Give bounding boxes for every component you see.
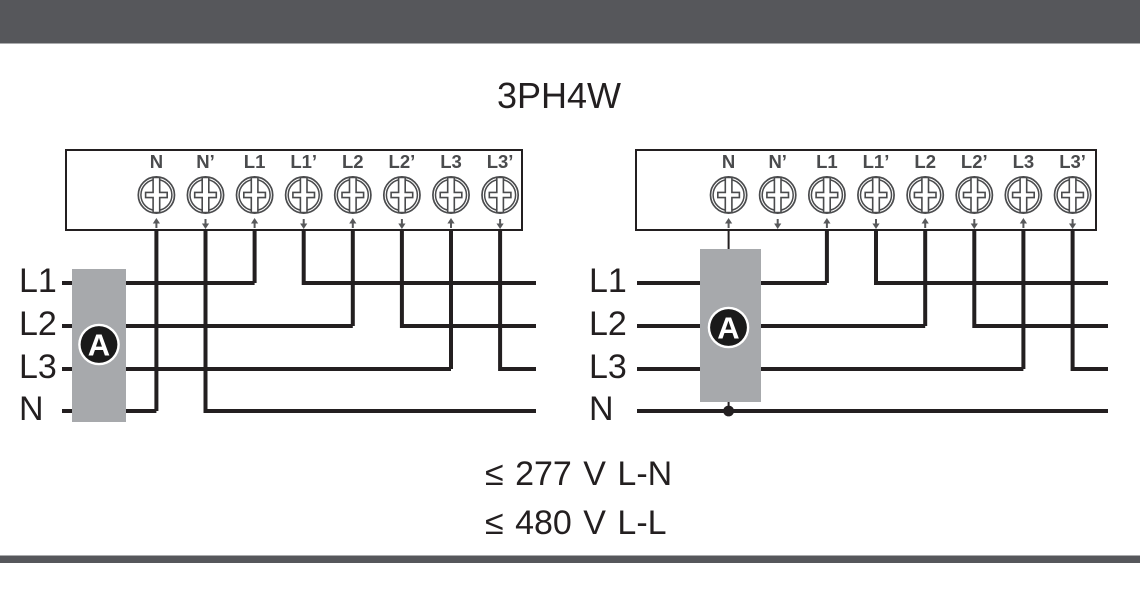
wire terminal L1 drop (right) [825, 229, 829, 283]
svg-text:≤ 277 V L-N: ≤ 277 V L-N [485, 455, 672, 493]
current-direction arrow up at terminal L3 right [1020, 218, 1027, 228]
screw terminal N (right block) [711, 177, 747, 213]
svg-text:N: N [589, 390, 614, 428]
screw terminal L3’ (right block) [1055, 177, 1091, 213]
current-direction arrow up at terminal N left [153, 218, 160, 228]
screw terminal L2 (left block) [335, 177, 371, 213]
screw terminal L1’ (left block) [286, 177, 322, 213]
svg-text:A: A [88, 328, 110, 363]
wire N bus (right): source to load [637, 409, 1108, 413]
svg-text:L1: L1 [19, 262, 57, 300]
current-direction arrow down at terminal L2’ left [398, 219, 405, 229]
screw terminal L1 (left block) [237, 177, 273, 213]
svg-text:L1: L1 [244, 151, 266, 172]
current-direction arrow down at terminal L1’ left [300, 219, 307, 229]
wire terminal L1' drop and L1 load line (right) [876, 229, 1108, 283]
screw terminal L1 (right block) [809, 177, 845, 213]
meter symbol A (right diagram) [708, 307, 750, 349]
wire terminal L3' drop and L3 load line (left) [500, 229, 536, 369]
wire terminal L1 drop (left) [253, 229, 257, 283]
meter body A2 (right diagram) [700, 249, 761, 402]
svg-text:N: N [150, 151, 163, 172]
terminal block (left diagram) [66, 150, 522, 230]
current-direction arrow up at terminal L1 left [251, 218, 258, 228]
svg-text:≤ 480 V L-L: ≤ 480 V L-L [485, 504, 667, 542]
screw terminal L2’ (left block) [384, 177, 420, 213]
svg-text:L2: L2 [589, 305, 627, 343]
svg-text:L2: L2 [19, 305, 57, 343]
wire terminal L3' drop and L3 load line (right) [1073, 229, 1108, 369]
current-direction arrow down at terminal L1’ right [872, 219, 879, 229]
svg-text:L1’: L1’ [290, 151, 317, 172]
current-direction arrow up at terminal L2 right [922, 218, 929, 228]
wire terminal N sense lead to meter (right) [728, 229, 730, 249]
wire L1 feed (right): source to terminal L1 [637, 281, 827, 285]
current-direction arrow down at terminal L3’ left [497, 219, 504, 229]
wire terminal L2 drop (left) [351, 229, 355, 326]
wire terminal L2' drop and L2 load line (right) [974, 229, 1108, 326]
meter body A1 (left diagram) [72, 269, 126, 422]
svg-text:L1: L1 [816, 151, 838, 172]
svg-text:L2’: L2’ [961, 151, 988, 172]
top header bar [0, 0, 1140, 44]
svg-text:A: A [717, 311, 739, 346]
svg-text:L3: L3 [440, 151, 462, 172]
svg-text:L1’: L1’ [863, 151, 890, 172]
wire L3 feed (right): source to terminal L3 [637, 367, 1023, 371]
svg-text:L2: L2 [914, 151, 936, 172]
svg-text:L2’: L2’ [389, 151, 416, 172]
wire terminal L1' drop and L1 load line (left) [304, 229, 536, 283]
wire meter neutral lead to N bus (right) [728, 402, 730, 411]
wire L3 feed (left): source to terminal L3 [62, 367, 451, 371]
screw terminal L2’ (right block) [956, 177, 992, 213]
junction dot on N bus (right diagram) [723, 406, 734, 417]
svg-text:L3: L3 [1013, 151, 1035, 172]
screw terminal N’ (left block) [187, 177, 223, 213]
svg-text:L3: L3 [19, 348, 57, 386]
current-direction arrow up at terminal L1 right [823, 218, 830, 228]
meter symbol A (left diagram) [78, 324, 120, 366]
terminal block (right diagram) [636, 150, 1096, 230]
svg-text:N: N [722, 151, 735, 172]
current-direction arrow down at terminal N’ right [774, 219, 781, 229]
svg-text:L1: L1 [589, 262, 627, 300]
current-direction arrow down at terminal L3’ right [1069, 219, 1076, 229]
current-direction arrow up at terminal N right [725, 218, 732, 228]
wire L2 feed (right): source to terminal L2 [637, 324, 925, 328]
bottom rule bar [0, 556, 1140, 564]
svg-text:L3’: L3’ [1059, 151, 1086, 172]
wire terminal L2 drop (right) [923, 229, 927, 326]
current-direction arrow up at terminal L2 left [349, 218, 356, 228]
screw terminal L3 (left block) [433, 177, 469, 213]
screw terminal L3’ (left block) [482, 177, 518, 213]
wire terminal N drop (left) [154, 229, 158, 411]
svg-text:L3’: L3’ [487, 151, 514, 172]
svg-text:N’: N’ [196, 151, 215, 172]
svg-text:L2: L2 [342, 151, 364, 172]
screw terminal L1’ (right block) [858, 177, 894, 213]
svg-text:L3: L3 [589, 348, 627, 386]
current-direction arrow down at terminal L2’ right [971, 219, 978, 229]
wire N feed (left): source to terminal N [62, 409, 156, 413]
current-direction arrow down at terminal N’ left [202, 219, 209, 229]
wire terminal L2' drop and L2 load line (left) [402, 229, 536, 326]
screw terminal N (left block) [138, 177, 174, 213]
screw terminal N’ (right block) [760, 177, 796, 213]
current-direction arrow up at terminal L3 left [447, 218, 454, 228]
svg-text:N: N [19, 390, 44, 428]
wire terminal L3 drop (right) [1021, 229, 1025, 369]
screw terminal L3 (right block) [1005, 177, 1041, 213]
wire L1 feed (left): source to terminal L1 [62, 281, 255, 285]
wire L2 feed (left): source to terminal L2 [62, 324, 353, 328]
svg-text:N’: N’ [768, 151, 787, 172]
wire terminal L3 drop (left) [449, 229, 453, 369]
screw terminal L2 (right block) [907, 177, 943, 213]
svg-text:3PH4W: 3PH4W [497, 75, 621, 116]
wire terminal N' drop and N load line (left) [206, 229, 537, 411]
